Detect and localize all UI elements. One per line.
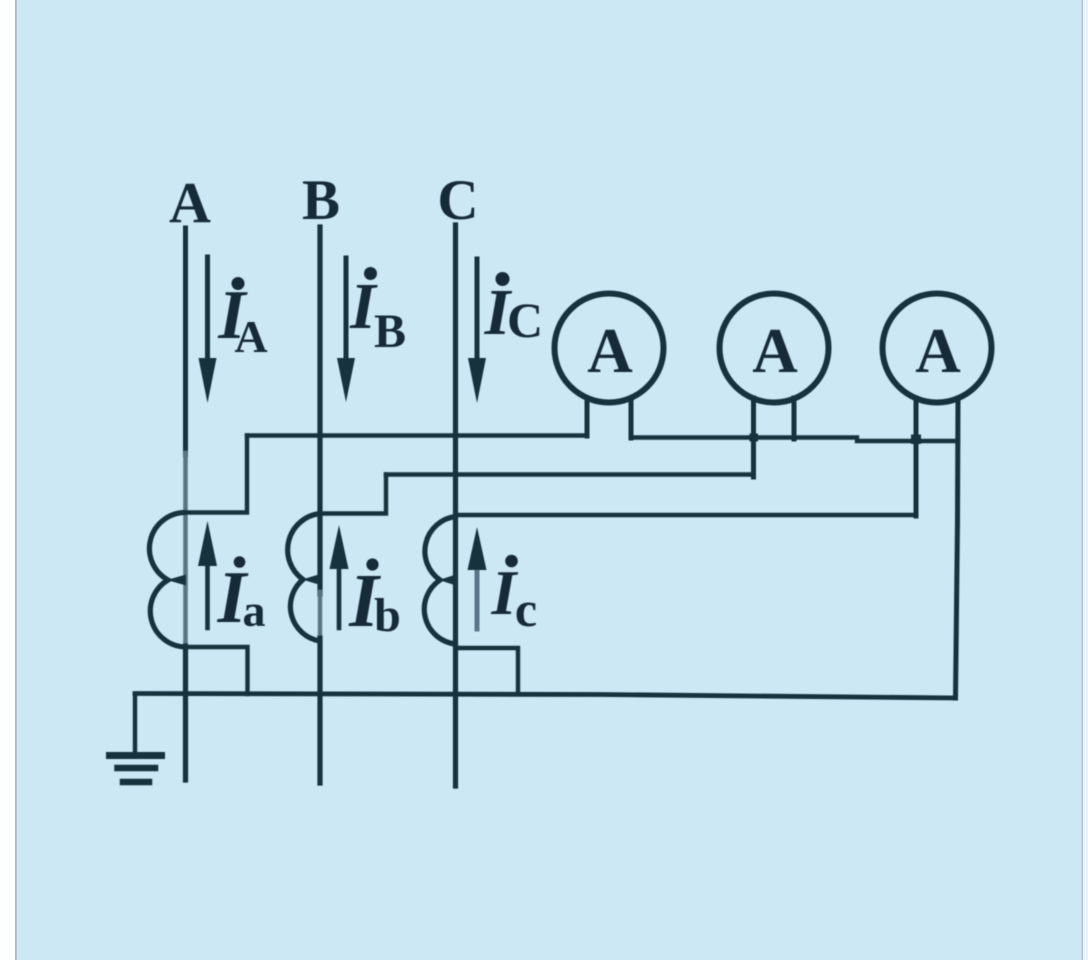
svg-text:A: A	[169, 170, 211, 235]
svg-text:A: A	[234, 311, 267, 362]
svg-text:C: C	[507, 292, 543, 348]
svg-text:A: A	[752, 316, 798, 386]
label Ic	[491, 555, 538, 637]
svg-text:a: a	[243, 585, 266, 636]
wire bus1 TA1 to PA1	[247, 433, 587, 437]
ammeter PA1 left lead	[585, 398, 590, 436]
ammeter PA3 left lead	[914, 398, 919, 516]
node junction PA3 left lead with wire	[911, 435, 921, 445]
wire bottom bus	[135, 694, 956, 699]
svg-text:A: A	[915, 316, 961, 386]
arrow Ic	[468, 527, 487, 629]
current transformer TA1	[149, 512, 185, 647]
current transformer TA2	[288, 514, 320, 642]
ammeter PA3 right lead / return wire	[956, 398, 959, 698]
wire phase A lower	[183, 646, 188, 780]
svg-text:B: B	[302, 169, 340, 232]
label Ia	[217, 556, 266, 639]
ammeter PA3	[883, 294, 992, 403]
ground	[110, 694, 162, 782]
wire phase B	[317, 227, 322, 594]
svg-text:c: c	[515, 581, 537, 637]
svg-text:b: b	[374, 589, 401, 642]
ammeter PA2 left lead	[751, 398, 756, 477]
svg-text:A: A	[587, 316, 633, 386]
arrow Ib	[330, 525, 349, 628]
ammeter PA2	[720, 294, 829, 403]
wire bus2 TA2 to PA2	[386, 472, 754, 476]
label IB	[349, 267, 406, 358]
wire TA1 bottom jog	[186, 647, 248, 694]
wire TA1 top jog	[186, 436, 248, 513]
ammeter PA1 right lead	[629, 398, 634, 438]
arrow Ia	[198, 521, 217, 628]
current transformer TA3	[424, 517, 455, 645]
svg-text:B: B	[374, 305, 406, 358]
label IA	[217, 277, 267, 362]
wire TA2 top jog	[320, 475, 386, 514]
wire phase A middle faded	[183, 453, 188, 648]
arrow IA	[199, 257, 217, 403]
node junction PA2 left lead with wire	[750, 434, 759, 442]
label IC	[484, 272, 543, 349]
wire phase C	[453, 225, 458, 786]
arrow IC	[468, 259, 486, 403]
wire TA3 bottom jog	[456, 648, 519, 694]
wire phase A upper	[183, 228, 188, 455]
label Ib	[348, 558, 401, 643]
ammeter PA1	[555, 294, 664, 403]
wire bus3 TA3 to PA3	[456, 513, 917, 517]
wire PA1 right to PA3 right	[631, 438, 958, 442]
wire jog PA2 left down to bus2	[751, 437, 755, 475]
arrow IB	[337, 258, 355, 402]
ammeter PA2 right lead	[792, 398, 797, 439]
